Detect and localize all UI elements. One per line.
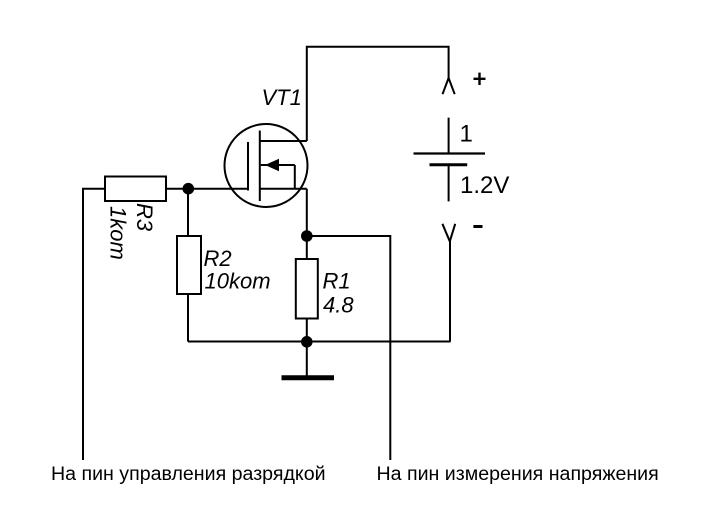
channel line bbox=[259, 131, 261, 202]
resistor R2 bbox=[177, 236, 201, 294]
wire top rail from drain to battery plus bbox=[307, 47, 449, 141]
connector pin chevron bbox=[443, 78, 455, 94]
wire node A to R1 top bbox=[306, 236, 308, 259]
transistor Q VT1 body circle bbox=[225, 124, 308, 207]
node A junction dot bbox=[301, 230, 313, 242]
battery cell 1 top lead bbox=[448, 118, 450, 153]
wire R3 to gate bbox=[166, 188, 248, 190]
svg-text:1.2V: 1.2V bbox=[460, 172, 509, 199]
wire R1 bottom to node B bbox=[306, 319, 308, 342]
wire fork stem to node B rail bbox=[449, 241, 451, 342]
svg-text:R2: R2 bbox=[204, 246, 232, 271]
svg-text:10kom: 10kom bbox=[205, 269, 271, 294]
wire node B to ground bbox=[306, 342, 308, 376]
source horizontal lead bbox=[260, 188, 307, 190]
gate plate line bbox=[247, 142, 249, 191]
ground bbox=[282, 375, 335, 380]
battery bottom lead bbox=[448, 166, 450, 201]
resistor R3 bbox=[105, 177, 166, 202]
battery short plate bbox=[430, 163, 468, 166]
body vertical to source bbox=[294, 165, 296, 189]
wire node B horizontal rail bbox=[188, 341, 451, 343]
svg-text:R1: R1 bbox=[323, 269, 351, 294]
connector fork bbox=[442, 224, 455, 242]
svg-text:На пин измерения напряжения: На пин измерения напряжения bbox=[377, 463, 659, 485]
plus sign bbox=[474, 73, 486, 85]
node B junction dot bbox=[301, 336, 313, 348]
body horizontal lead bbox=[261, 164, 295, 166]
svg-text:VT1: VT1 bbox=[262, 85, 302, 110]
node C junction dot bbox=[183, 183, 195, 195]
svg-text:4.8: 4.8 bbox=[323, 293, 354, 318]
wire R2 bottom to node B rail bbox=[187, 294, 189, 342]
wire source down to node A bbox=[306, 189, 308, 236]
drain horizontal lead bbox=[260, 140, 307, 142]
svg-text:На пин управления разрядкой: На пин управления разрядкой bbox=[51, 463, 326, 485]
svg-text:R3: R3 bbox=[132, 203, 157, 232]
wire node A to measure pin bbox=[311, 236, 390, 460]
battery long plate bbox=[414, 152, 486, 154]
svg-text:1kom: 1kom bbox=[106, 206, 131, 260]
wire node C to R2 top bbox=[187, 189, 189, 236]
resistor R1 bbox=[296, 259, 318, 319]
svg-text:1: 1 bbox=[460, 121, 473, 148]
body arrow bbox=[265, 159, 279, 171]
wire R3 left to control pin bbox=[83, 189, 105, 460]
minus sign bbox=[473, 225, 482, 228]
